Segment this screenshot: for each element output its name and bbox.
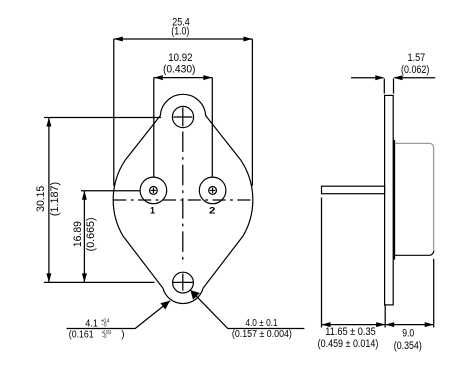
pin 1 cross — [151, 188, 157, 194]
svg-text:−0: −0 — [102, 334, 107, 340]
svg-text:(1.0): (1.0) — [171, 26, 189, 38]
dimension 25.4 — [114, 39, 253, 186]
svg-text:30.15: 30.15 — [35, 186, 47, 212]
svg-text:1.57: 1.57 — [408, 52, 426, 64]
top mounting hole — [172, 106, 193, 127]
flange body outline (front view) — [113, 94, 253, 303]
svg-text:(0.665): (0.665) — [85, 217, 97, 251]
svg-text:(0.430): (0.430) — [163, 63, 196, 75]
can weld lip — [393, 140, 395, 260]
svg-text:(0.354): (0.354) — [394, 340, 422, 352]
svg-text:(0.459 ± 0.014): (0.459 ± 0.014) — [318, 338, 379, 350]
dimension 1.57 — [351, 78, 435, 94]
svg-text:(0.157 ± 0.004): (0.157 ± 0.004) — [232, 329, 292, 340]
svg-text:−0: −0 — [101, 322, 106, 328]
svg-text:(1.187): (1.187) — [49, 182, 61, 216]
pin 1 — [140, 177, 167, 204]
svg-text:): ) — [121, 329, 124, 340]
svg-text:(0.062): (0.062) — [401, 64, 429, 76]
dimension 11.65 / 9.0 — [322, 198, 434, 328]
side view pin — [322, 186, 385, 194]
dimension 16.89 — [81, 191, 140, 283]
leader 4.0 (bottom right) — [190, 290, 304, 328]
top hole cross — [173, 108, 192, 127]
vertical centerline — [182, 132, 184, 263]
svg-text:(0.161: (0.161 — [69, 329, 94, 340]
leader 4.1 (bottom left) — [67, 301, 170, 329]
dimension 30.15 — [44, 118, 161, 283]
svg-text:1: 1 — [150, 206, 155, 216]
svg-text:2: 2 — [209, 206, 215, 216]
svg-text:4.1: 4.1 — [85, 318, 98, 329]
svg-text:16.89: 16.89 — [72, 221, 84, 247]
bottom hole cross — [172, 281, 193, 283]
svg-text:9.0: 9.0 — [402, 327, 414, 339]
pin 2 — [199, 177, 226, 204]
svg-text:11.65 ± 0.35: 11.65 ± 0.35 — [325, 326, 376, 338]
side view flange — [385, 95, 394, 305]
can body (gray) — [395, 143, 434, 250]
svg-text:4.0 ± 0.1: 4.0 ± 0.1 — [245, 318, 278, 329]
dimension 10.92 — [154, 78, 213, 178]
horizontal centerline — [113, 199, 252, 201]
can bottom edge — [394, 251, 434, 256]
pin 2 cross — [210, 188, 216, 194]
bottom mounting hole — [173, 272, 194, 293]
